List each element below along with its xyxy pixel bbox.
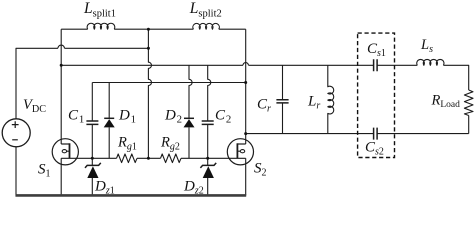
wire second rail from Vdc plus <box>16 48 148 119</box>
mosfet S1 gate bubble <box>62 150 66 153</box>
zener Dz1 triangle <box>87 166 98 178</box>
wire zener Dz2 branch <box>207 158 209 195</box>
dashed box Cs equivalent <box>358 33 395 157</box>
wire hop over S2 drain <box>243 63 249 66</box>
zener Dz2 triangle <box>203 166 214 178</box>
source Vdc circle <box>2 119 30 147</box>
wire top rail right <box>219 28 246 30</box>
wire cross coupling C1 D1 to S2 drain <box>92 82 245 84</box>
capacitor C1 plates <box>86 121 98 124</box>
wire C1 branch <box>91 83 93 159</box>
inductor Lr vertical coil <box>328 65 334 133</box>
wire tank bottom node <box>246 133 469 135</box>
wire S2 drain vertical <box>245 29 247 195</box>
node dot gate row Dz1 <box>91 157 94 160</box>
resistor Rg2 <box>161 154 182 163</box>
capacitor C2 plates <box>202 121 214 124</box>
resistor Rg1 <box>117 154 138 163</box>
wire top rail <box>61 28 87 30</box>
wire RLoad bottom <box>468 116 470 134</box>
resistor RLoad <box>464 90 473 116</box>
diode D2 triangle <box>184 119 195 127</box>
source Vdc minus sign <box>12 139 18 141</box>
capacitor Cs1 plates <box>374 59 378 71</box>
bottom rail <box>15 194 246 197</box>
wire gate row left <box>61 157 246 159</box>
wire Vdc minus to bottom rail <box>15 147 17 196</box>
inductor Ls coil <box>417 59 444 65</box>
wire top rail mid <box>114 28 193 30</box>
source Vdc plus sign <box>12 121 19 128</box>
diode D1 cathode bar <box>104 117 114 119</box>
wire D2 branch with hop <box>189 65 192 158</box>
mosfet S1 internals <box>61 143 69 158</box>
mosfet S1 circle <box>52 139 78 165</box>
capacitor Cr plates <box>276 100 288 103</box>
mosfet S2 circle <box>227 139 253 165</box>
node dot center tap gate row <box>147 157 150 160</box>
inductor Lsplit1 <box>87 23 115 29</box>
capacitor Cs2 plates <box>374 128 378 140</box>
zener Dz1 bar <box>85 163 101 168</box>
node dot S2 drain cross wire <box>244 81 247 84</box>
node dot gate row Dz2 <box>206 157 209 160</box>
node dot S1 drain tank <box>60 64 63 67</box>
mosfet S2 gate bubble <box>240 150 244 153</box>
node dot S2 drain tank bottom <box>244 132 247 135</box>
diode D1 triangle <box>104 119 115 127</box>
mosfet S2 internals <box>237 143 245 158</box>
node dot center tap second rail <box>147 47 150 50</box>
node dot center tap top <box>147 28 150 31</box>
wire center tap vertical with hops <box>148 29 151 158</box>
wire Ls to load corner <box>443 65 468 90</box>
diode D2 cathode bar <box>184 117 194 119</box>
wire S1 drain-source vertical <box>60 29 62 195</box>
wire zener Dz1 branch <box>91 158 93 195</box>
wire Cr branch <box>282 65 284 133</box>
wire hop over S1 drain <box>58 45 64 48</box>
wire D1 branch <box>108 83 110 159</box>
inductor Lsplit2 <box>193 23 220 29</box>
wire tank top node <box>61 64 373 66</box>
wire Cs1 right to Ls <box>377 64 417 66</box>
zener Dz2 bar <box>200 163 216 168</box>
wire C2 branch with hop <box>208 65 211 158</box>
